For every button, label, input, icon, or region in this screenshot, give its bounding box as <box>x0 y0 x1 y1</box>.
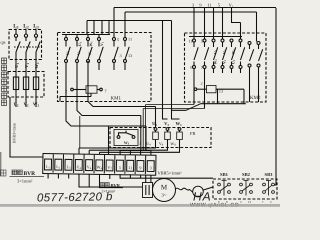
svg-text:2: 2 <box>139 141 141 146</box>
wire top bus 1 <box>114 8 276 38</box>
svg-text:W4: W4 <box>97 165 103 171</box>
wire KM2 coil diagonal exit <box>172 104 246 111</box>
svg-text:3: 3 <box>120 53 122 58</box>
svg-text:9: 9 <box>139 165 141 170</box>
motor M terminal box <box>143 183 153 198</box>
svg-text:7: 7 <box>104 89 106 94</box>
wire channel collect bus <box>120 151 151 156</box>
svg-text:V4: V4 <box>87 164 92 170</box>
wire tag drop 5 <box>222 8 224 40</box>
motor M <box>153 179 176 202</box>
svg-text:BVR3×1mm: BVR3×1mm <box>12 122 17 143</box>
svg-text:KM2: KM2 <box>250 95 261 101</box>
svg-text:M: M <box>161 184 168 192</box>
svg-text:L1: L1 <box>46 164 51 170</box>
wire stubs below XT1 power cells <box>48 174 69 179</box>
wire KM1 output bus 2 <box>77 63 141 151</box>
button station enclosure (dashed box) <box>213 179 277 199</box>
wire KM2 internal top bus <box>189 36 242 38</box>
svg-text:BVR: BVR <box>24 171 37 177</box>
svg-text:U1: U1 <box>78 41 83 46</box>
svg-text:L3: L3 <box>66 164 71 170</box>
svg-text:VBR5×1mm²: VBR5×1mm² <box>158 171 183 176</box>
svg-text:V1: V1 <box>229 3 234 9</box>
flexible conduit to buttons <box>176 188 193 192</box>
wire KM2 to channel bus B <box>143 109 204 151</box>
wire KM1 internal top bus <box>62 34 110 36</box>
contactor KM2 enclosure (dashed box) <box>185 33 267 102</box>
wire aux riser x80 <box>79 116 81 148</box>
cable label steel conduit BVR fraction <box>10 170 45 183</box>
svg-text:W3: W3 <box>124 141 130 146</box>
contactor KM2 aux pole A <box>193 39 199 105</box>
contactor KM2 aux pole B <box>203 39 209 109</box>
svg-text:SB2: SB2 <box>242 172 251 177</box>
fuse FU1 <box>13 77 18 90</box>
coil KM1 <box>71 88 74 91</box>
svg-text:SB3: SB3 <box>265 172 274 177</box>
button SB1 <box>218 181 231 196</box>
wire motor feed from XT1 <box>79 174 143 187</box>
svg-text:13: 13 <box>128 53 132 58</box>
contactor KM1 main pole 2 <box>76 35 82 63</box>
svg-text:W1: W1 <box>34 62 40 69</box>
svg-text:V2: V2 <box>223 49 228 54</box>
svg-text:3~: 3~ <box>161 193 167 199</box>
svg-text:W2: W2 <box>232 49 237 55</box>
svg-text:11: 11 <box>207 3 211 8</box>
svg-text:5: 5 <box>119 165 121 170</box>
contactor KM1 main pole 1 <box>65 35 71 63</box>
wire L2 drop <box>25 29 27 35</box>
wire under KM1 coil <box>60 93 91 101</box>
contactor KM1 main pole 3 <box>87 35 93 63</box>
wire button feed from XT1 <box>120 174 213 178</box>
wire V1 drop <box>232 8 241 40</box>
wire tag drop 11 <box>213 8 215 40</box>
svg-text:SB1: SB1 <box>220 172 229 177</box>
wire KM2 to channel bus A <box>146 105 194 151</box>
svg-text:11: 11 <box>128 36 132 41</box>
svg-text:U1: U1 <box>14 63 20 68</box>
svg-text:U3: U3 <box>232 59 237 64</box>
fuse FU2 <box>23 77 28 90</box>
switch QS linkage <box>14 46 40 48</box>
svg-text:3×1mm²: 3×1mm² <box>17 178 33 183</box>
wire power cable down left <box>10 97 43 157</box>
contactor KM2 main pole 1 <box>212 39 218 73</box>
wire tag drop 9 <box>204 8 206 40</box>
svg-text:2×1mm²: 2×1mm² <box>102 188 116 193</box>
switch QS pole 1 <box>14 34 17 37</box>
scan smear left edge <box>0 152 1 176</box>
svg-text:2: 2 <box>200 81 202 86</box>
contactor KM2 main pole 4 <box>239 39 245 73</box>
left margin vertical note (source text) <box>2 58 7 106</box>
heater FR phase V <box>166 128 169 131</box>
contactor KM1 aux pole 6 <box>124 38 130 71</box>
svg-text:U2: U2 <box>214 49 219 54</box>
svg-text:U3: U3 <box>66 50 71 55</box>
thermal relay FR contact block <box>114 130 138 146</box>
switch QS pole 2 <box>24 34 27 37</box>
svg-text:13: 13 <box>219 89 223 94</box>
heater FR phase U <box>154 128 157 131</box>
wire KM1 output bus 1 <box>88 61 156 128</box>
wire cell7 riser <box>108 126 110 154</box>
svg-text:BVR: BVR <box>111 183 121 188</box>
wire right edge drop <box>273 8 276 185</box>
svg-text:W3: W3 <box>88 50 93 56</box>
svg-text:11: 11 <box>188 39 192 44</box>
svg-text:V3: V3 <box>77 50 82 55</box>
heater FR phase W <box>178 128 181 131</box>
contactor KM2 main pole 2 <box>221 39 227 73</box>
svg-text:13: 13 <box>248 200 252 204</box>
svg-text:5: 5 <box>117 37 119 42</box>
contactor KM2 aux pole D <box>257 42 263 103</box>
power source label <box>1 170 7 176</box>
svg-text:W3: W3 <box>214 59 219 65</box>
switch QS enclosure (dashed box) <box>9 30 42 60</box>
conduit loop <box>193 186 204 197</box>
svg-text:V7: V7 <box>107 165 112 171</box>
svg-text:3: 3 <box>150 165 152 170</box>
button SB3 <box>263 181 275 196</box>
svg-text:V3: V3 <box>223 59 228 64</box>
svg-text:Q8: Q8 <box>1 40 6 45</box>
terminal labels XT1 <box>46 164 152 171</box>
svg-text:KM1: KM1 <box>111 96 122 102</box>
contactor KM1 enclosure (dashed box) <box>58 33 152 102</box>
contactor KM1 main pole 4 <box>98 35 104 71</box>
wire KM1 output bus 3 <box>66 63 146 151</box>
wire top bus 2 <box>125 12 257 42</box>
contactor KM2 aux pole C <box>248 42 254 103</box>
svg-text:U4: U4 <box>77 164 82 170</box>
fuse FU3 <box>33 77 38 90</box>
wire tag drop 3 <box>193 8 195 40</box>
thermal relay FR enclosure (dashed box) <box>110 128 211 148</box>
svg-text:V1: V1 <box>24 63 30 68</box>
svg-text:L2: L2 <box>56 164 61 170</box>
contactor KM1 aux pole 5 <box>113 38 119 71</box>
wire gap riser 2 <box>172 21 180 120</box>
scan edge band bottom <box>0 204 280 207</box>
svg-text:11: 11 <box>128 165 132 170</box>
cable label conduit BVR 2 fraction <box>99 183 123 194</box>
svg-text:W1: W1 <box>89 41 94 47</box>
terminal strip XT1 <box>43 154 156 176</box>
wire L3 drop <box>35 29 37 35</box>
wire motor cable from strip end <box>146 175 151 182</box>
coil KM2 <box>194 88 197 91</box>
wire top bus 3 <box>87 21 172 35</box>
button SB2 <box>240 181 253 196</box>
fuse box FU enclosure (dashed) <box>8 72 44 98</box>
svg-text:V1: V1 <box>100 41 105 46</box>
wire L1 drop <box>15 29 17 35</box>
switch QS pole 3 <box>34 34 37 37</box>
contactor KM2 main pole 3 <box>230 39 236 73</box>
wire gap riser 1 <box>163 21 168 120</box>
button pin labels <box>218 200 272 204</box>
svg-text:FR: FR <box>190 131 197 136</box>
